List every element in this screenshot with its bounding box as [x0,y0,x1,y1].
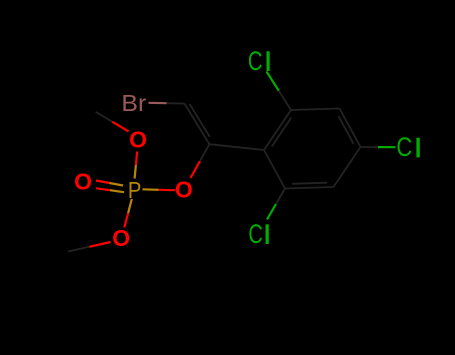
svg-text:C: C [396,133,412,163]
svg-text:O: O [175,177,193,203]
svg-text:O: O [74,169,92,195]
svg-text:C: C [248,219,262,250]
svg-text:P: P [128,177,142,204]
svg-text:C: C [248,46,263,77]
svg-text:Br: Br [121,91,146,117]
svg-text:O: O [129,127,147,153]
svg-text:O: O [112,225,130,251]
